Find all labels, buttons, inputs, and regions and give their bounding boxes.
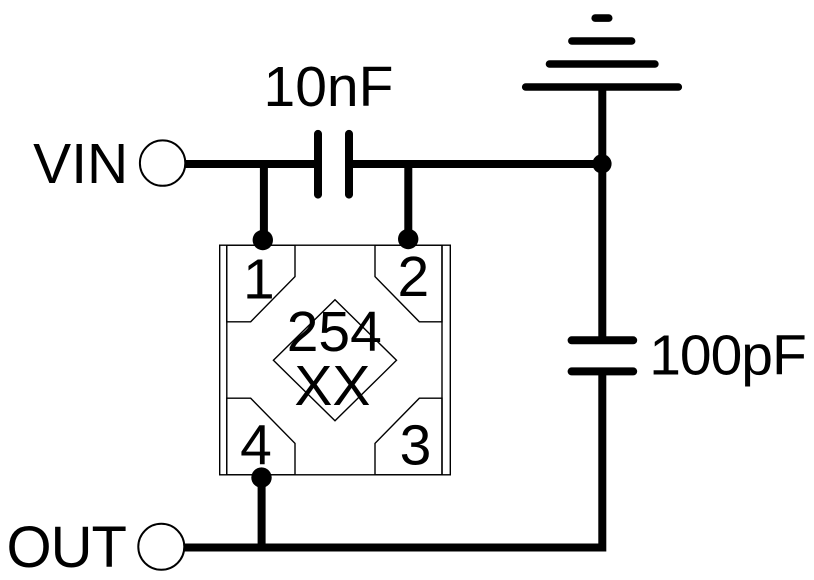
capacitor C1 10nF bbox=[318, 134, 349, 195]
svg-text:OUT: OUT bbox=[6, 515, 126, 580]
wire pin 1 drop bbox=[260, 164, 268, 240]
IC U1 center diamond bbox=[273, 300, 396, 421]
IC U1 left inner edge bbox=[226, 245, 228, 475]
svg-text:2: 2 bbox=[397, 245, 429, 309]
wire pin 2 drop bbox=[404, 164, 412, 239]
svg-text:3: 3 bbox=[400, 414, 432, 478]
svg-text:1: 1 bbox=[243, 247, 275, 311]
pad pin 4 bbox=[227, 398, 295, 475]
svg-text:10nF: 10nF bbox=[264, 55, 394, 119]
wire node to C2 top plate bbox=[598, 164, 606, 340]
node ground junction bbox=[592, 154, 611, 173]
pad pin 3 bbox=[375, 398, 442, 475]
wire C1 right plate to ground node bbox=[349, 160, 602, 168]
capacitor C2 100pF bbox=[572, 340, 634, 371]
pad pin 2 bbox=[375, 245, 442, 322]
IC U1 right inner edge bbox=[441, 245, 443, 475]
node pin 2 bbox=[398, 229, 418, 249]
wire C2 bottom plate to OUT line bbox=[184, 371, 606, 551]
svg-text:4: 4 bbox=[240, 414, 272, 478]
pad pin 1 bbox=[227, 245, 295, 322]
svg-text:XX: XX bbox=[294, 354, 370, 418]
svg-text:VIN: VIN bbox=[33, 132, 128, 196]
wire pin 4 drop bbox=[258, 478, 266, 548]
terminal VIN bbox=[140, 140, 185, 185]
terminal OUT bbox=[138, 524, 184, 570]
IC U1 package outline bbox=[220, 245, 451, 475]
wire VIN to C1 left plate bbox=[185, 160, 318, 168]
node pin 1 bbox=[253, 230, 273, 250]
wire ground stem bbox=[598, 87, 606, 164]
svg-text:100pF: 100pF bbox=[649, 324, 806, 388]
ground bbox=[526, 18, 679, 87]
node pin 4 bbox=[251, 467, 271, 487]
